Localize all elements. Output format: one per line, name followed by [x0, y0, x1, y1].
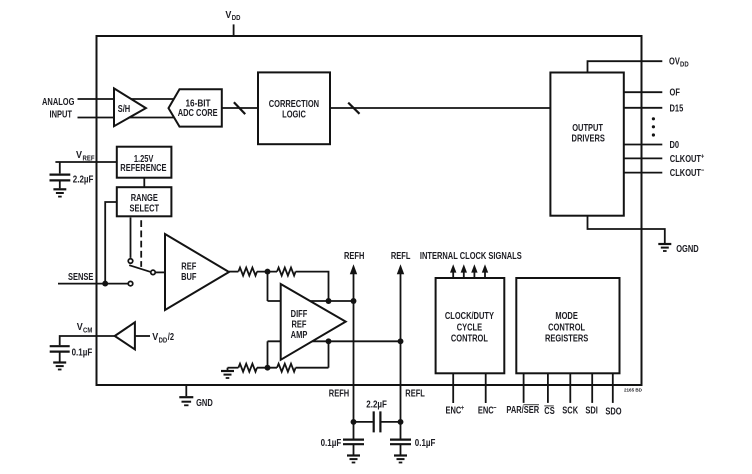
svg-text:CONTROL: CONTROL [548, 321, 586, 332]
svg-text:DD: DD [680, 61, 689, 69]
svg-text:0.1µF: 0.1µF [321, 437, 342, 448]
svg-text:/2: /2 [168, 331, 174, 342]
svg-text:INPUT: INPUT [50, 108, 73, 119]
svg-text:REFERENCE: REFERENCE [120, 162, 166, 173]
svg-text:CONTROL: CONTROL [451, 332, 489, 343]
svg-text:+: + [461, 404, 464, 412]
svg-text:0.1µF: 0.1µF [415, 437, 436, 448]
svg-text:ADC CORE: ADC CORE [178, 107, 218, 118]
svg-text:OF: OF [670, 87, 681, 98]
svg-text:REGISTERS: REGISTERS [545, 332, 588, 343]
svg-text:SDI: SDI [585, 404, 597, 415]
svg-text:CLKOUT: CLKOUT [670, 167, 702, 178]
svg-text:REFL: REFL [405, 387, 425, 398]
svg-text:DD: DD [159, 337, 168, 345]
svg-text:2.2µF: 2.2µF [366, 399, 387, 410]
svg-text:D0: D0 [670, 139, 680, 150]
svg-text:REFH: REFH [344, 250, 364, 261]
svg-text:REF: REF [83, 155, 95, 163]
svg-text:2165 BD: 2165 BD [624, 387, 643, 392]
svg-text:SDO: SDO [605, 405, 621, 416]
svg-text:MODE: MODE [555, 310, 578, 321]
svg-text:LOGIC: LOGIC [282, 108, 306, 119]
svg-text:BUF: BUF [181, 271, 197, 282]
svg-text:SCK: SCK [562, 404, 578, 415]
svg-text:REFH: REFH [329, 387, 349, 398]
svg-text:CYCLE: CYCLE [457, 321, 482, 332]
svg-text:AMP: AMP [291, 329, 308, 340]
svg-text:2.2µF: 2.2µF [73, 174, 94, 185]
svg-text:−: − [493, 404, 496, 412]
svg-text:ENC: ENC [478, 404, 494, 415]
svg-text:DD: DD [232, 15, 241, 23]
svg-text:−: − [701, 167, 704, 175]
svg-text:V: V [76, 150, 83, 162]
svg-text:GND: GND [196, 397, 213, 408]
svg-text:CM: CM [83, 327, 93, 335]
svg-text:CS: CS [544, 405, 555, 416]
svg-text:PAR/SER: PAR/SER [506, 404, 539, 415]
svg-text:OGND: OGND [676, 243, 698, 254]
svg-text:+: + [701, 153, 704, 161]
svg-text:INTERNAL CLOCK SIGNALS: INTERNAL CLOCK SIGNALS [420, 250, 522, 261]
svg-text:ANALOG: ANALOG [42, 96, 75, 107]
svg-text:SELECT: SELECT [130, 202, 160, 213]
svg-text:0.1µF: 0.1µF [72, 346, 93, 357]
svg-text:D15: D15 [670, 103, 684, 114]
svg-text:ENC: ENC [446, 404, 462, 415]
svg-text:SENSE: SENSE [68, 271, 93, 282]
svg-text:CLKOUT: CLKOUT [670, 153, 702, 164]
svg-text:DRIVERS: DRIVERS [572, 133, 605, 144]
svg-text:REFL: REFL [391, 250, 411, 261]
svg-text:OV: OV [669, 56, 680, 67]
svg-text:OUTPUT: OUTPUT [572, 122, 603, 133]
svg-text:S/H: S/H [118, 103, 130, 114]
svg-text:CLOCK/DUTY: CLOCK/DUTY [445, 310, 494, 321]
